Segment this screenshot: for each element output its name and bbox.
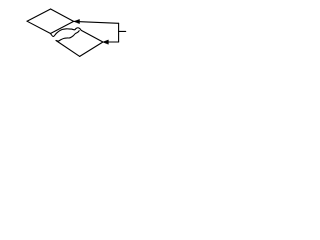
arrowhead at node R2 (current direction) [103,40,108,44]
coil upper turn: edge L1-B1 [27,21,51,33]
bottom lead wire from vertical to node R2 [103,41,118,43]
top lead wire from node R1 to right vertical [74,21,119,23]
coil upper turn: edge T1-R1 [51,9,74,21]
coil lower turn: edge L2-B2 [56,41,80,57]
wavy crossover connector from node B1 over node T2 [51,28,103,42]
coil lower turn: wavy edge L2-T2 [56,31,79,41]
right vertical wire [118,23,120,42]
coil upper turn: edge B1-R1 [51,21,74,33]
arrowhead at node R1 (current direction) [74,19,79,23]
coil upper turn: edge L1-T1 [27,9,51,21]
terminal stub [119,30,126,32]
coil lower turn: edge B2-R2 [80,42,103,56]
